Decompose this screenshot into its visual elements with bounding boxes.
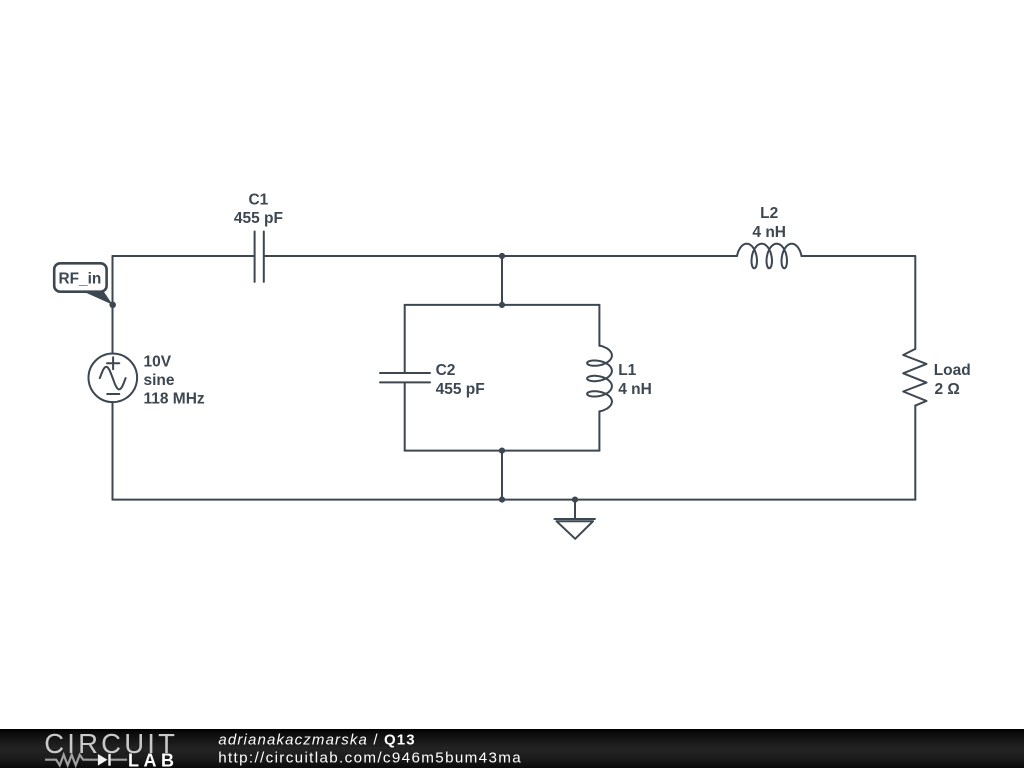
voltage source V1 (89, 354, 138, 403)
svg-text:118 MHz: 118 MHz (144, 390, 205, 407)
wire tank bottom edge (405, 450, 600, 452)
wire top rail left (113, 255, 254, 257)
svg-text:L2: L2 (760, 205, 778, 222)
svg-text:http://circuitlab.com/c946m5bu: http://circuitlab.com/c946m5bum43ma (218, 750, 522, 767)
svg-text:LAB: LAB (128, 751, 179, 768)
svg-text:Load: Load (934, 362, 971, 379)
source plus (107, 357, 119, 369)
ground stem (554, 500, 595, 519)
resistor Load (903, 349, 926, 406)
wire middle branch upper (501, 256, 503, 305)
node junction ground (572, 497, 578, 503)
wire top rail middle (265, 255, 737, 257)
inductor L1 (587, 346, 612, 412)
wire tank left lower (404, 383, 406, 451)
wire middle branch lower (501, 451, 503, 500)
node RF_in dot (109, 302, 116, 309)
footer bar (0, 729, 1024, 768)
svg-text:4 nH: 4 nH (618, 381, 652, 398)
source sine symbol (100, 367, 126, 390)
svg-text:C2: C2 (436, 362, 456, 379)
wire tank left upper (404, 305, 406, 373)
ground triangle (557, 521, 594, 539)
capacitor C2 (380, 373, 430, 382)
node RF_in pointer wedge (82, 291, 113, 305)
svg-text:4 nH: 4 nH (752, 224, 786, 241)
svg-text:2 Ω: 2 Ω (935, 381, 960, 398)
wire tank right lower (598, 411, 600, 450)
wire load to bottom rail (914, 406, 916, 500)
svg-text:455 pF: 455 pF (436, 381, 485, 398)
inductor L2 (737, 244, 802, 269)
wire tank top edge (405, 304, 600, 306)
svg-text:C1: C1 (248, 191, 268, 208)
node junction tank top (499, 302, 505, 308)
svg-text:10V: 10V (144, 353, 172, 370)
wire left rail top (112, 256, 114, 354)
wire bottom rail (113, 499, 916, 501)
logo resistor-diode glyph (45, 755, 127, 766)
wire source to bottom rail (112, 402, 114, 500)
source minus (107, 393, 119, 395)
node junction tank bottom (499, 448, 505, 454)
wire tank right upper (598, 305, 600, 346)
capacitor C1 (255, 232, 264, 282)
svg-text:455 pF: 455 pF (234, 210, 283, 227)
svg-text:L1: L1 (618, 362, 636, 379)
node junction bottom middle (499, 497, 505, 503)
svg-text:RF_in: RF_in (59, 271, 102, 288)
wire top rail right (802, 256, 916, 349)
node RF_in flag (54, 263, 106, 291)
svg-text:adrianakaczmarska / Q13: adrianakaczmarska / Q13 (218, 731, 415, 748)
node junction top middle (499, 253, 505, 259)
svg-text:sine: sine (144, 372, 175, 389)
